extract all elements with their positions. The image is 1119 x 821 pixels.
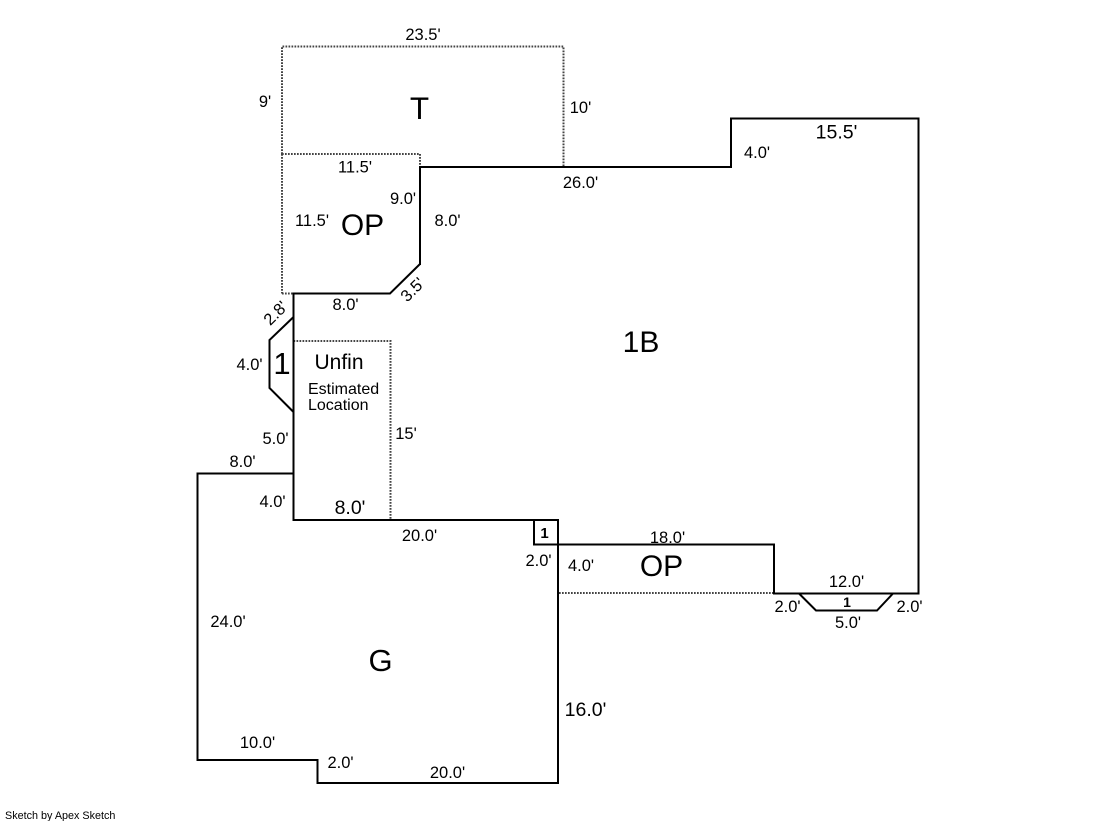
- svg-text:2.0': 2.0': [327, 754, 353, 772]
- stoop trapezoid 1: [799, 594, 893, 611]
- svg-text:10': 10': [570, 99, 592, 117]
- svg-text:1: 1: [540, 525, 548, 542]
- svg-text:18.0': 18.0': [650, 529, 685, 547]
- svg-text:12.0': 12.0': [829, 573, 864, 591]
- svg-text:8.0': 8.0': [335, 497, 366, 519]
- deck T dashed outline: [282, 47, 564, 168]
- svg-text:4.0': 4.0': [744, 144, 770, 162]
- left wall vertical: [293, 293, 295, 521]
- svg-text:Estimated: Estimated: [308, 381, 379, 398]
- svg-text:16.0': 16.0': [565, 699, 607, 721]
- garage G top wall: [293, 519, 559, 521]
- svg-text:26.0': 26.0': [563, 174, 598, 192]
- porch OP dashed connector at top right: [419, 154, 421, 166]
- svg-text:4.0': 4.0': [568, 557, 594, 575]
- svg-text:Unfin: Unfin: [314, 351, 363, 374]
- svg-text:5.0': 5.0': [835, 614, 861, 632]
- porch OP dashed bottom corner segment: [282, 293, 294, 295]
- svg-text:11.5': 11.5': [338, 159, 372, 177]
- svg-text:15': 15': [395, 425, 417, 443]
- svg-text:10.0': 10.0': [240, 734, 275, 752]
- unfinished area dashed outline: [294, 341, 391, 520]
- svg-text:Location: Location: [308, 397, 369, 414]
- svg-text:1: 1: [843, 594, 851, 610]
- svg-text:20.0': 20.0': [430, 764, 465, 782]
- svg-text:8.0': 8.0': [229, 453, 255, 471]
- deck T / porch OP shared dashed edge: [282, 153, 420, 155]
- svg-text:9': 9': [259, 93, 271, 111]
- upper porch OP solid wall (diagonal and bottom): [293, 264, 421, 294]
- svg-text:1: 1: [273, 346, 290, 381]
- svg-text:4.0': 4.0': [259, 493, 285, 511]
- svg-text:8.0': 8.0': [332, 296, 358, 314]
- bay window 1: [270, 317, 294, 412]
- svg-text:OP: OP: [341, 209, 384, 242]
- svg-text:9.0': 9.0': [390, 190, 416, 208]
- svg-text:OP: OP: [640, 550, 683, 583]
- svg-text:11.5': 11.5': [295, 212, 329, 230]
- step box 1: [534, 520, 558, 545]
- main house 1B outline wall: [420, 119, 919, 594]
- garage G outline wall: [198, 474, 559, 784]
- svg-text:4.0': 4.0': [236, 356, 262, 374]
- svg-text:15.5': 15.5': [816, 122, 858, 144]
- svg-text:Sketch by Apex Sketch: Sketch by Apex Sketch: [5, 810, 115, 821]
- svg-text:23.5': 23.5': [405, 26, 440, 44]
- svg-text:8.0': 8.0': [434, 212, 460, 230]
- svg-text:20.0': 20.0': [402, 527, 437, 545]
- svg-text:2.0': 2.0': [896, 598, 922, 616]
- svg-text:24.0': 24.0': [210, 613, 245, 631]
- svg-text:T: T: [410, 90, 429, 126]
- svg-text:5.0': 5.0': [262, 430, 288, 448]
- porch OP dashed left edge: [281, 154, 283, 294]
- svg-text:2.0': 2.0': [525, 552, 551, 570]
- svg-text:G: G: [368, 643, 392, 678]
- svg-text:1B: 1B: [623, 326, 660, 359]
- svg-text:2.0': 2.0': [774, 598, 800, 616]
- lower porch OP dashed bottom edge: [559, 592, 774, 594]
